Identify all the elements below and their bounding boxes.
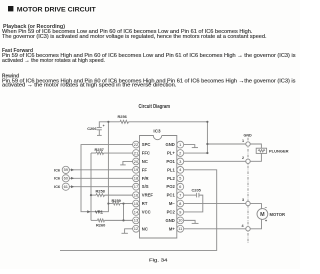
- svg-text:R257: R257: [95, 147, 104, 152]
- svg-text:RT: RT: [142, 201, 148, 206]
- svg-text:R256: R256: [118, 114, 128, 119]
- svg-text:SPC: SPC: [142, 142, 151, 147]
- svg-text:NC: NC: [142, 159, 148, 164]
- svg-text:15: 15: [134, 201, 139, 206]
- svg-text:59: 59: [64, 167, 69, 172]
- svg-text:C206: C206: [87, 126, 97, 131]
- svg-text:MOTOR DRIVE CIRCUIT: MOTOR DRIVE CIRCUIT: [17, 6, 96, 13]
- svg-text:F/R: F/R: [142, 176, 149, 181]
- svg-text:Fig. 34: Fig. 34: [149, 258, 168, 264]
- svg-text:10: 10: [178, 218, 183, 223]
- svg-text:13: 13: [134, 218, 139, 223]
- svg-text:activated → the motor rotates: activated → the motor rotates at high sp…: [2, 83, 177, 89]
- svg-text:PLUNGER: PLUNGER: [269, 148, 289, 153]
- svg-text:18: 18: [134, 176, 139, 181]
- svg-text:GND: GND: [165, 142, 174, 147]
- svg-text:+: +: [103, 124, 105, 128]
- svg-text:FF: FF: [142, 167, 148, 172]
- svg-text:IC3: IC3: [153, 128, 161, 133]
- svg-text:61: 61: [64, 184, 69, 189]
- svg-text:M: M: [260, 212, 265, 218]
- svg-text:IC6: IC6: [54, 167, 61, 172]
- svg-text:Circuit Diagram: Circuit Diagram: [139, 104, 171, 110]
- svg-text:GND: GND: [165, 218, 174, 223]
- svg-text:12: 12: [134, 226, 139, 231]
- svg-text:2: 2: [242, 156, 244, 160]
- svg-text:IC6: IC6: [54, 184, 61, 189]
- svg-text:PC1: PC1: [167, 193, 176, 198]
- svg-text:FFC: FFC: [142, 151, 150, 156]
- svg-text:C205: C205: [192, 188, 202, 193]
- svg-text:20: 20: [134, 159, 139, 164]
- svg-text:R258: R258: [96, 189, 106, 194]
- svg-text:PC2: PC2: [167, 209, 176, 214]
- svg-text:1: 1: [242, 139, 244, 143]
- svg-text:17: 17: [134, 184, 139, 189]
- svg-text:activated → the motor rotates: activated → the motor rotates at high sp…: [2, 58, 105, 64]
- svg-text:60: 60: [64, 176, 69, 181]
- svg-text:22: 22: [134, 142, 139, 147]
- svg-text:PO2: PO2: [166, 184, 175, 189]
- svg-text:The governor (IC3) is activate: The governor (IC3) is activated and moto…: [2, 34, 267, 40]
- svg-text:M+: M+: [169, 226, 175, 231]
- svg-text:PL1: PL1: [167, 167, 175, 172]
- svg-text:3: 3: [242, 198, 244, 202]
- svg-text:R260: R260: [96, 222, 105, 227]
- svg-text:VCC: VCC: [142, 209, 151, 214]
- svg-text:PO1: PO1: [166, 159, 175, 164]
- svg-text:21: 21: [134, 150, 139, 155]
- svg-text:14: 14: [134, 209, 139, 214]
- svg-text:PL+: PL+: [167, 151, 175, 156]
- svg-text:M−: M−: [169, 201, 175, 206]
- svg-text:R259: R259: [112, 198, 122, 203]
- svg-text:IC6: IC6: [54, 176, 61, 181]
- svg-text:PL2: PL2: [167, 176, 175, 181]
- svg-text:S/S: S/S: [142, 184, 149, 189]
- svg-text:GND: GND: [244, 133, 253, 137]
- svg-text:16: 16: [134, 192, 139, 197]
- svg-text:NC: NC: [142, 226, 148, 231]
- svg-text:VREF: VREF: [142, 193, 154, 198]
- svg-text:MOTOR: MOTOR: [270, 212, 286, 217]
- svg-text:19: 19: [134, 167, 139, 172]
- svg-text:VR1: VR1: [95, 210, 104, 215]
